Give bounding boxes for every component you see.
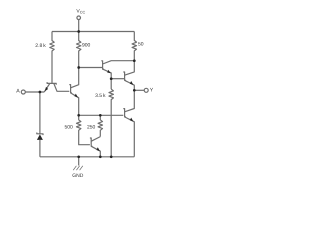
svg-text:500: 500 <box>65 124 74 130</box>
svg-text:50: 50 <box>138 41 144 47</box>
svg-text:3.5 k: 3.5 k <box>95 93 106 99</box>
svg-text:GND: GND <box>72 173 84 179</box>
svg-text:VCC: VCC <box>76 8 85 14</box>
svg-text:2.8 k: 2.8 k <box>35 43 46 49</box>
svg-text:250: 250 <box>87 124 96 130</box>
svg-text:Y: Y <box>150 88 154 94</box>
svg-text:900: 900 <box>82 43 91 49</box>
svg-text:A: A <box>16 89 20 95</box>
